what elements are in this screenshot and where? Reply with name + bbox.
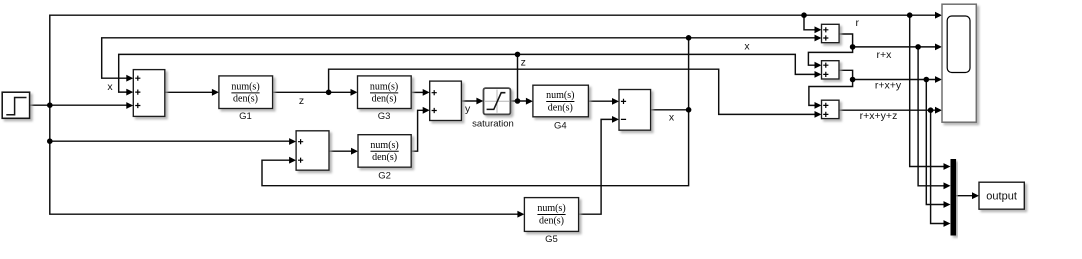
svg-text:den(s): den(s) — [233, 94, 258, 105]
node r branch — [801, 12, 807, 18]
arrowhead sum S1 in2 — [126, 89, 133, 96]
wire G1 z feedback to sum C in2 — [329, 69, 816, 114]
node z G1 out — [326, 90, 332, 96]
arrowhead sum A in2 — [815, 35, 822, 42]
wire branch to sum S4 in1 — [50, 140, 290, 142]
node r drop — [907, 12, 913, 18]
arrowhead sum S2 in1 — [423, 89, 430, 96]
arrowhead mux in4 — [944, 220, 951, 227]
sum S2 — [430, 81, 462, 120]
sum B — [822, 61, 840, 79]
transfer function G2 — [358, 135, 411, 168]
arrowhead sum S1 in3 — [126, 102, 133, 109]
arrowhead sum S4 in2 — [289, 157, 296, 164]
arrowhead sum B in2 — [815, 71, 822, 78]
wire r branch to sum A in1 — [804, 15, 816, 30]
svg-text:x: x — [669, 111, 675, 123]
arrowhead G2 in — [351, 148, 358, 155]
node r+x+y+z drop — [928, 107, 934, 113]
svg-text:G2: G2 — [378, 170, 391, 181]
wire drop 3 to mux in3 — [926, 80, 944, 205]
wire saturation z branch up — [517, 54, 519, 101]
wire drop 1 to mux in1 — [910, 15, 945, 166]
wire r+x+y branch to sum C in1 — [809, 80, 853, 106]
node sat out — [515, 98, 521, 104]
svg-text:z: z — [521, 56, 526, 68]
wire x feedback line to sum S1 in1 and sum A in2 — [102, 38, 816, 78]
wire r main loop: step junction up, across top, into scope in1 — [50, 15, 936, 214]
arrowhead sum B in1 — [815, 62, 822, 69]
wire r+x branch to sum B in1 — [808, 47, 852, 65]
arrowhead sum S4 in1 — [289, 138, 296, 145]
step input block — [2, 92, 29, 118]
sum S1 — [133, 70, 165, 117]
wire node x down feedback to sum S4 in2 — [262, 110, 689, 186]
svg-text:den(s): den(s) — [539, 215, 564, 226]
svg-text:G4: G4 — [554, 121, 567, 132]
mux bar — [951, 159, 957, 236]
arrowhead scope in4 — [935, 107, 942, 114]
node S4 branch — [47, 138, 53, 144]
node r+x+y branch — [850, 77, 856, 83]
arrowhead G1 in — [212, 89, 219, 96]
wire G4 to sum S3 — [588, 100, 613, 102]
sum A — [822, 24, 840, 42]
node step junction — [47, 102, 53, 108]
wire G5 to sum S3 minus — [579, 119, 613, 214]
wire drop 4 to mux in4 — [931, 110, 945, 223]
arrowhead sum S1 in1 — [126, 75, 133, 82]
node z sat line — [515, 52, 521, 58]
arrowhead output in — [972, 192, 979, 199]
wire sum S1 to G1 — [165, 91, 213, 93]
svg-text:r+x+y+z: r+x+y+z — [860, 110, 898, 122]
arrowhead sum S2 in2 — [423, 107, 430, 114]
svg-text:output: output — [986, 191, 1017, 203]
svg-text:den(s): den(s) — [372, 152, 397, 163]
node x top — [686, 35, 692, 41]
svg-text:num(s): num(s) — [370, 140, 398, 151]
svg-text:r+x+y: r+x+y — [875, 79, 902, 91]
svg-text:y: y — [465, 103, 471, 115]
transfer function G1 — [219, 76, 273, 109]
wire drop 2 to mux in2 — [918, 47, 944, 186]
arrowhead sum S3 plus in — [612, 98, 619, 105]
svg-text:x: x — [107, 81, 113, 93]
wire step output to sum S1 in3 — [30, 104, 128, 106]
ARROWHEADS — [126, 12, 979, 227]
arrowhead scope in1 — [935, 12, 942, 19]
wire G2 up to sum S2 in2 — [411, 110, 424, 151]
arrowhead saturation in — [476, 98, 483, 105]
arrowhead G3 in — [351, 89, 358, 96]
arrowhead G4 in — [526, 98, 533, 105]
output block — [979, 182, 1024, 209]
svg-text:r+x: r+x — [877, 49, 893, 61]
arrowhead mux in2 — [944, 182, 951, 189]
arrowhead sum A in1 — [815, 26, 822, 33]
transfer function G5 — [524, 198, 578, 232]
saturation block — [484, 88, 511, 114]
svg-text:num(s): num(s) — [370, 82, 398, 93]
wire sum S4 to G2 — [329, 150, 352, 152]
node r+x drop — [915, 44, 921, 50]
arrowhead sum C in2 — [815, 111, 822, 118]
arrowhead G5 in — [517, 211, 524, 218]
wire sum S3 output to node x — [651, 109, 689, 111]
wire mux to output — [956, 195, 973, 197]
wire saturation to G4 — [510, 100, 527, 102]
arrowhead mux in3 — [944, 201, 951, 208]
svg-text:r: r — [856, 17, 860, 29]
arrowhead mux in1 — [944, 163, 951, 170]
arrowhead sum S3 minus in — [612, 116, 619, 123]
svg-text:G5: G5 — [545, 234, 558, 245]
transfer function G4 — [533, 85, 589, 117]
svg-text:x: x — [744, 40, 750, 52]
wire G1 to G3 — [273, 91, 352, 93]
svg-text:saturation: saturation — [472, 118, 514, 129]
arrowhead sum C in1 — [815, 102, 822, 109]
wire z line to sum S1 in2 and sum B in2 — [119, 54, 816, 92]
wire sum C out r+x+y+z line into scope in4 — [839, 109, 936, 111]
sum C — [822, 100, 840, 118]
wire sum A out to r+x line into scope in2 — [839, 34, 936, 47]
transfer function G3 — [358, 76, 412, 109]
svg-text:den(s): den(s) — [372, 94, 397, 105]
wire node x up to x line — [688, 38, 690, 110]
arrowhead scope in2 — [935, 44, 942, 51]
svg-text:num(s): num(s) — [537, 203, 565, 214]
wire sum S2 to saturation — [461, 100, 477, 102]
wire sum B out to r+x+y line into scope in3 — [839, 70, 936, 79]
svg-text:num(s): num(s) — [546, 90, 574, 101]
svg-text:den(s): den(s) — [548, 102, 573, 113]
sum S3 — [619, 90, 651, 131]
sum S4 — [296, 131, 329, 170]
svg-text:G3: G3 — [378, 111, 391, 122]
svg-text:num(s): num(s) — [231, 82, 259, 93]
svg-text:z: z — [299, 95, 304, 107]
arrowhead scope in3 — [935, 76, 942, 83]
svg-text:G1: G1 — [239, 111, 252, 122]
node x out — [686, 107, 692, 113]
wire G3 to sum S2 — [411, 91, 424, 93]
scope block — [942, 4, 976, 122]
node r+x branch — [850, 44, 856, 50]
node r+x+y drop — [924, 77, 930, 83]
